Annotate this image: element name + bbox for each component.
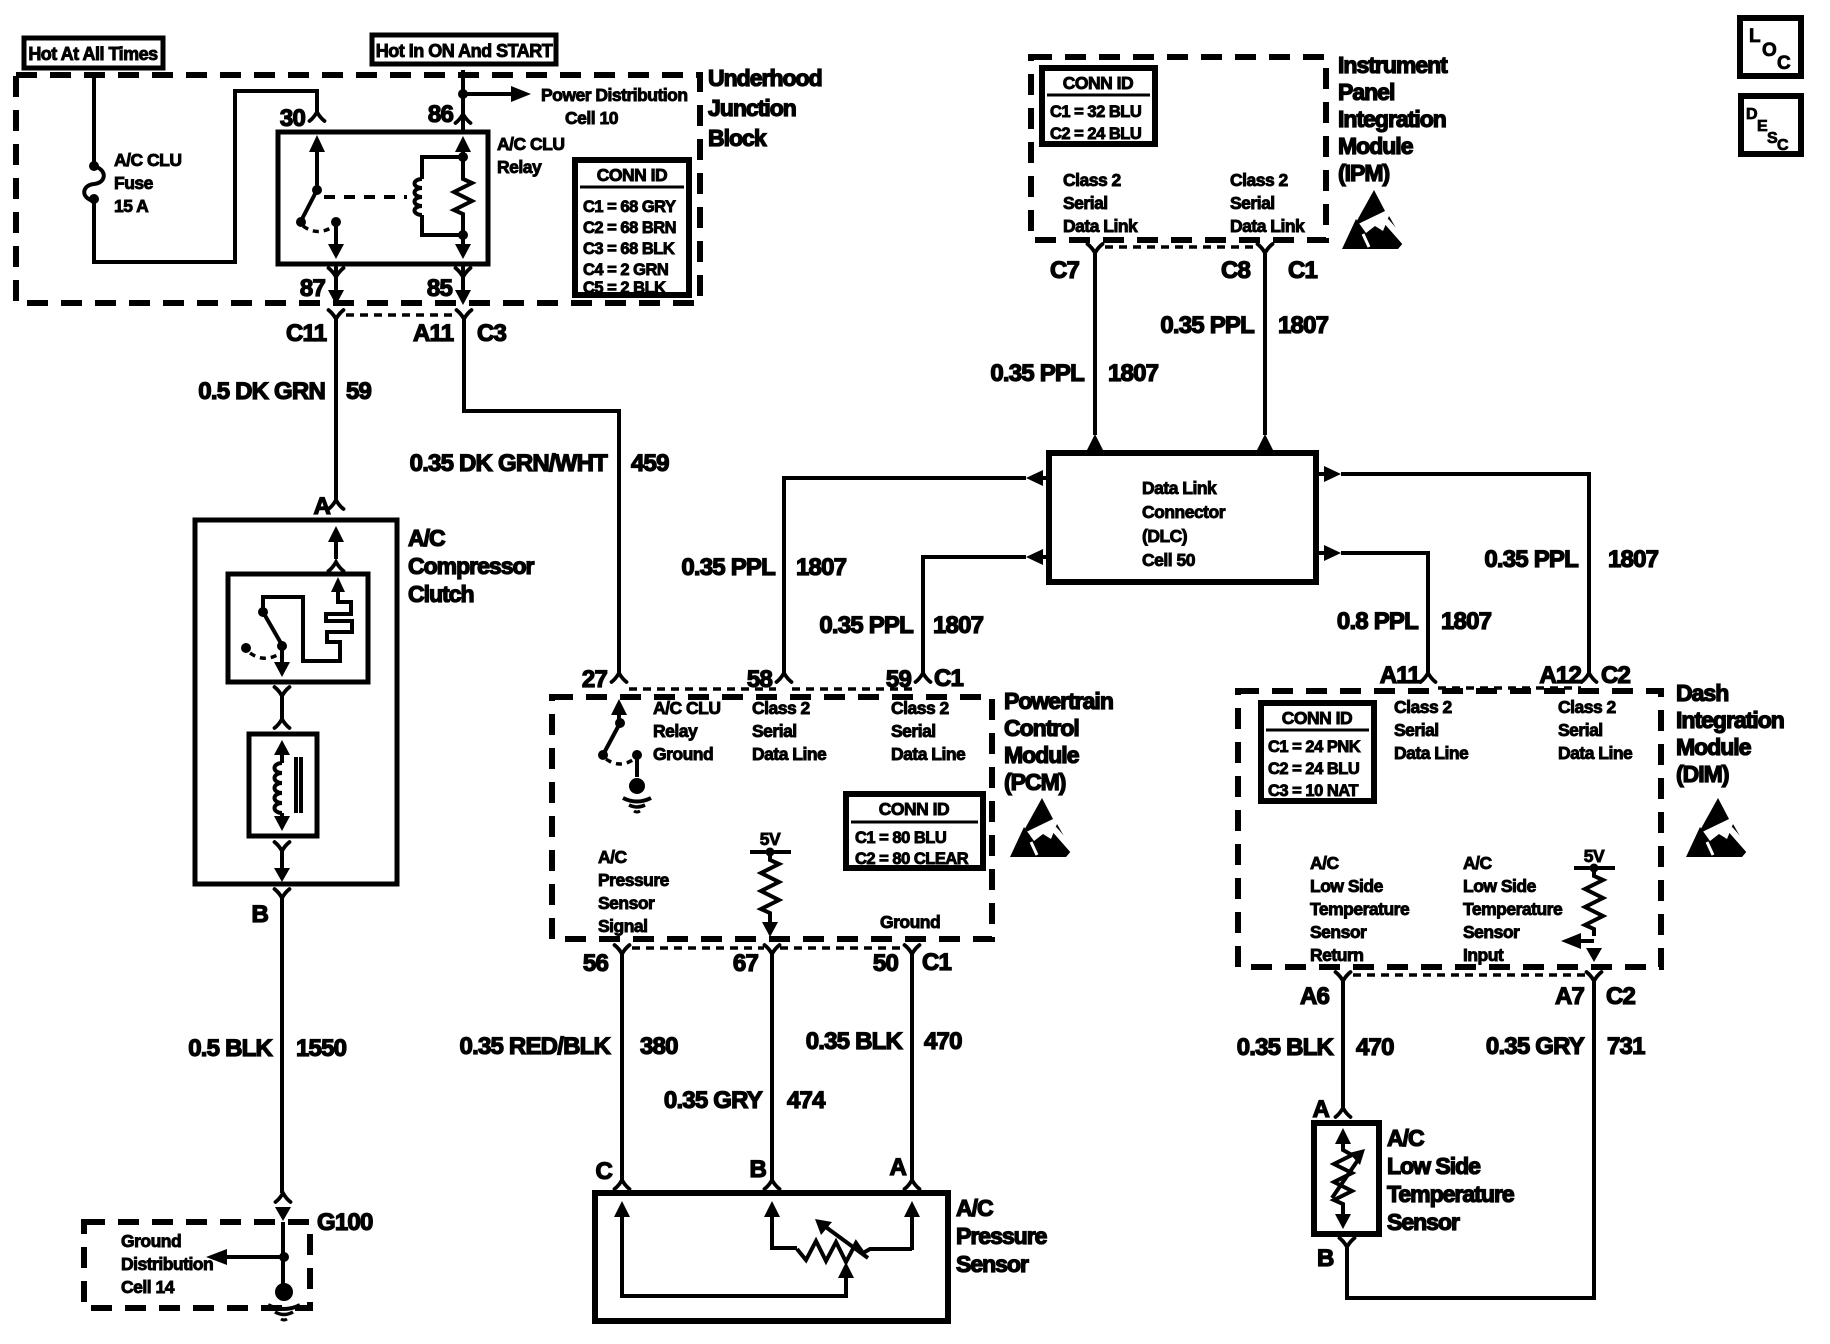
node A on temp sensor [1312, 1096, 1350, 1123]
wire DLC to DIM A11, 0.8 PPL 1807 [1337, 553, 1492, 673]
pin A6 [1300, 972, 1351, 1010]
svg-text:Data Line: Data Line [1558, 743, 1633, 763]
svg-text:Return: Return [1310, 945, 1363, 965]
svg-text:Instrument: Instrument [1338, 52, 1448, 78]
label A/C Low Side Temperature Sensor Input [1463, 853, 1563, 965]
svg-text:C1 = 24 PNK: C1 = 24 PNK [1268, 738, 1361, 756]
svg-text:470: 470 [924, 1028, 962, 1055]
svg-text:5V: 5V [1584, 846, 1605, 866]
svg-text:Module: Module [1338, 133, 1413, 159]
node B on clutch [251, 889, 289, 928]
svg-text:Panel: Panel [1338, 79, 1394, 105]
node C11 [286, 310, 344, 347]
svg-text:Integration: Integration [1338, 106, 1446, 132]
svg-text:5V: 5V [760, 829, 781, 849]
svg-text:Hot At All Times: Hot At All Times [28, 44, 158, 64]
svg-text:Relay: Relay [653, 721, 698, 741]
svg-text:Power Distribution: Power Distribution [541, 85, 688, 105]
svg-text:30: 30 [280, 105, 306, 132]
svg-text:Low Side: Low Side [1310, 876, 1384, 896]
svg-text:459: 459 [631, 450, 669, 477]
svg-text:27: 27 [582, 666, 608, 693]
wire A7 to temp sensor B, 0.35 GRY 731 [1347, 981, 1645, 1298]
svg-text:Cell 14: Cell 14 [121, 1277, 175, 1297]
svg-text:0.5 DK GRN: 0.5 DK GRN [198, 378, 325, 405]
svg-text:470: 470 [1356, 1034, 1394, 1061]
svg-text:Input: Input [1463, 945, 1504, 965]
svg-text:1807: 1807 [796, 554, 847, 581]
clutch coil box [249, 734, 317, 836]
svg-text:Module: Module [1004, 742, 1079, 768]
wire C3 to PCM pin 27, 0.35 DK GRN/WHT 459 [410, 319, 669, 673]
arrow DLC left lower [1026, 549, 1049, 565]
label A/C Pressure Sensor Signal [598, 847, 670, 936]
svg-text:Serial: Serial [1394, 720, 1439, 740]
connector dashed line IPM bottom [1105, 245, 1256, 249]
arrow DLC right upper [1316, 466, 1341, 482]
svg-text:A7: A7 [1555, 983, 1585, 1010]
svg-text:0.35 PPL: 0.35 PPL [1484, 546, 1578, 573]
svg-text:CONN ID: CONN ID [1063, 73, 1133, 93]
svg-text:0.5 BLK: 0.5 BLK [188, 1035, 273, 1062]
svg-text:Temperature: Temperature [1463, 899, 1563, 919]
label Underhood Junction Block [708, 65, 822, 151]
wire from Hot At All Times to fuse [92, 77, 96, 162]
relay coil resistor branch [454, 136, 472, 259]
label Hot At All Times [24, 38, 163, 68]
svg-text:Data Line: Data Line [752, 744, 827, 764]
svg-text:Class 2: Class 2 [1558, 697, 1617, 717]
ESD symbol PCM [1010, 798, 1076, 857]
svg-text:Pressure: Pressure [598, 870, 670, 890]
svg-text:C2 = 80 CLEAR: C2 = 80 CLEAR [855, 850, 969, 868]
connector dashed line DIM top [1438, 686, 1581, 690]
wire Hot In ON And START to relay pin 86 [461, 70, 465, 132]
arrow to Power Distribution Cell 10 [463, 85, 688, 128]
connector dashed line DIM bottom [1353, 973, 1586, 977]
svg-text:B: B [251, 901, 268, 928]
node B on temp sensor [1317, 1238, 1355, 1272]
arrow left at DIM resistor [1561, 933, 1602, 962]
label Class 2 Serial Data Line DIM A11 [1394, 697, 1469, 763]
svg-text:C2: C2 [1601, 662, 1631, 689]
svg-text:A/C: A/C [598, 847, 628, 867]
A/C Pressure Sensor box [595, 1193, 1047, 1321]
svg-text:87: 87 [300, 275, 326, 302]
node A on clutch [313, 493, 343, 520]
powertrain control module PCM dashed box [552, 697, 992, 939]
connector between switch and coil [275, 687, 290, 728]
svg-text:A11: A11 [1380, 662, 1421, 689]
location reference LOC box [1740, 18, 1801, 76]
pin 50 C1 [873, 945, 952, 977]
svg-text:Data Line: Data Line [1394, 743, 1469, 763]
label Powertrain Control Module (PCM) [1004, 688, 1113, 795]
svg-text:Class 2: Class 2 [1394, 697, 1453, 717]
svg-text:A: A [313, 493, 330, 520]
svg-text:1807: 1807 [933, 612, 984, 639]
svg-text:0.35 PPL: 0.35 PPL [990, 360, 1084, 387]
pin A12 C2 on DIM [1539, 662, 1630, 689]
svg-text:0.35 BLK: 0.35 BLK [806, 1028, 904, 1055]
pin 67 [733, 945, 780, 977]
svg-text:Hot In ON And START: Hot In ON And START [376, 41, 553, 61]
wire 56 to pressure sensor C, 0.35 RED/BLK 380 [460, 954, 679, 1180]
node C on pressure sensor [595, 1158, 629, 1189]
svg-text:A11: A11 [413, 320, 454, 347]
node junction dot on 86 wire [458, 89, 468, 99]
wire C11 to A/C compressor clutch pin A, 0.5 DK GRN 59 [198, 319, 371, 500]
svg-text:Data Line: Data Line [891, 744, 966, 764]
svg-text:Class 2: Class 2 [752, 698, 811, 718]
PCM internal relay ground switch [598, 699, 642, 777]
wire fuse to relay pin 30 [94, 91, 317, 262]
clutch pressure switch box [228, 574, 368, 682]
relay coil dashed actuator link [324, 195, 407, 199]
svg-text:1807: 1807 [1278, 312, 1329, 339]
instrument panel integration module IPM dashed box [1031, 57, 1326, 240]
svg-text:A/C CLU: A/C CLU [497, 134, 564, 154]
svg-text:C1: C1 [922, 949, 952, 976]
svg-text:Clutch: Clutch [408, 581, 474, 607]
svg-text:A: A [1312, 1096, 1329, 1123]
svg-text:C5 = 2 BLK: C5 = 2 BLK [583, 279, 666, 297]
svg-text:C: C [1777, 53, 1791, 74]
pin 27 [582, 666, 627, 693]
relay switch contact [296, 135, 344, 259]
description reference DESC box [1741, 96, 1801, 154]
clutch internal wire pin A to switch [328, 526, 344, 571]
svg-text:L: L [1749, 26, 1761, 47]
pin 30 [280, 105, 325, 132]
potentiometer element [797, 1219, 912, 1262]
svg-text:67: 67 [733, 950, 759, 977]
svg-text:Data Link: Data Link [1230, 216, 1305, 236]
svg-text:Ground: Ground [880, 912, 940, 932]
relay coil winding [415, 152, 468, 240]
svg-text:C1 = 32 BLU: C1 = 32 BLU [1050, 103, 1141, 121]
node A11 C3 [413, 310, 507, 347]
svg-text:0.35 PPL: 0.35 PPL [819, 612, 913, 639]
svg-text:15 A: 15 A [114, 196, 149, 216]
5V reference and resistor in PCM [750, 829, 791, 937]
svg-text:Control: Control [1004, 715, 1079, 741]
pin 86 [428, 101, 471, 128]
svg-text:Pressure: Pressure [956, 1223, 1047, 1249]
svg-text:1807: 1807 [1108, 360, 1159, 387]
wire PCM 58 to DLC, 0.35 PPL 1807 [681, 478, 1026, 673]
svg-text:Distribution: Distribution [121, 1254, 213, 1274]
clutch coil to pin B [274, 842, 290, 882]
svg-text:Data Link: Data Link [1142, 478, 1217, 498]
wire inside G100 [279, 1222, 289, 1288]
arrow into DLC top from C8 [1256, 434, 1274, 452]
wire A6 to temp sensor A, 0.35 BLK 470 [1237, 981, 1394, 1108]
svg-text:59: 59 [346, 378, 372, 405]
ground distribution dashed box G100 [84, 1209, 373, 1308]
label Hot In ON And START [372, 35, 556, 64]
arrow into DLC top from C7 [1086, 434, 1104, 452]
svg-text:0.35 RED/BLK: 0.35 RED/BLK [460, 1033, 612, 1060]
svg-text:Junction: Junction [708, 95, 796, 121]
pin C8 C1 [1221, 244, 1318, 284]
label Class 2 Serial Data Link pin C8 [1230, 170, 1305, 236]
node B on pressure sensor [749, 1156, 779, 1189]
svg-text:A/C CLU: A/C CLU [114, 150, 181, 170]
svg-text:Temperature: Temperature [1387, 1181, 1514, 1207]
svg-text:A/C: A/C [1387, 1125, 1424, 1151]
label Ground pin 50 [880, 912, 940, 932]
svg-text:1550: 1550 [296, 1035, 347, 1062]
fuse A/C CLU Fuse 15 A [84, 150, 181, 216]
svg-text:C4 = 2 GRN: C4 = 2 GRN [583, 261, 668, 279]
svg-text:0.35 PPL: 0.35 PPL [681, 554, 775, 581]
label Dash Integration Module (DIM) [1676, 680, 1784, 787]
svg-text:0.35 PPL: 0.35 PPL [1160, 312, 1254, 339]
svg-text:C2 = 24 BLU: C2 = 24 BLU [1268, 760, 1359, 778]
label Instrument Panel Integration Module (IPM) [1338, 52, 1448, 186]
arrow DLC left upper [1026, 470, 1049, 486]
ground G100 symbol [268, 1283, 300, 1320]
svg-text:Class 2: Class 2 [1063, 170, 1122, 190]
A/C Compressor Clutch box [195, 520, 535, 884]
ground symbol inside PCM [623, 778, 651, 812]
svg-text:C2: C2 [1606, 983, 1636, 1010]
svg-text:Integration: Integration [1676, 707, 1784, 733]
svg-text:C: C [595, 1158, 612, 1185]
svg-text:Temperature: Temperature [1310, 899, 1410, 919]
ESD symbol IPM [1342, 190, 1408, 249]
pressure sensor pin A internal wire [904, 1201, 920, 1250]
pin 58 [747, 666, 792, 693]
svg-text:A: A [889, 1154, 906, 1181]
pin 85 [427, 264, 471, 305]
svg-text:C3 = 10 NAT: C3 = 10 NAT [1268, 782, 1358, 800]
svg-text:Powertrain: Powertrain [1004, 688, 1113, 714]
label Class 2 Serial Data Line pin 58 [752, 698, 827, 764]
svg-text:C8: C8 [1221, 257, 1251, 284]
relay A/C CLU Relay box [278, 132, 564, 264]
wire 50 to pressure sensor A, 0.35 BLK 470 [806, 954, 962, 1180]
svg-text:C11: C11 [286, 320, 327, 347]
svg-text:1807: 1807 [1608, 546, 1659, 573]
A/C Low Side Temperature Sensor box [1314, 1123, 1514, 1235]
dash integration module DIM dashed box [1238, 691, 1661, 967]
svg-text:A/C: A/C [956, 1195, 993, 1221]
svg-text:0.35 GRY: 0.35 GRY [1486, 1033, 1585, 1060]
clutch switch actuator comb [263, 577, 352, 661]
pin 56 [583, 945, 630, 977]
wire C8 to DLC, 0.35 PPL 1807 [1160, 253, 1328, 435]
svg-text:0.8 PPL: 0.8 PPL [1337, 608, 1418, 635]
svg-text:Low Side: Low Side [1387, 1153, 1480, 1179]
svg-text:G100: G100 [317, 1209, 373, 1236]
svg-text:CONN ID: CONN ID [1282, 708, 1352, 728]
svg-text:Fuse: Fuse [114, 173, 154, 193]
svg-text:Class 2: Class 2 [891, 698, 950, 718]
svg-text:B: B [749, 1156, 766, 1183]
svg-text:474: 474 [787, 1087, 826, 1114]
label Class 2 Serial Data Link pin C7 [1063, 170, 1138, 236]
svg-text:C: C [1777, 137, 1789, 154]
svg-text:Sensor: Sensor [1463, 922, 1520, 942]
svg-text:Underhood: Underhood [708, 65, 822, 91]
svg-text:A6: A6 [1300, 983, 1330, 1010]
label A/C CLU Relay Ground [653, 698, 720, 764]
5V reference and resistor in DIM [1574, 846, 1615, 936]
svg-text:Ground: Ground [653, 744, 713, 764]
svg-text:1807: 1807 [1441, 608, 1492, 635]
svg-text:50: 50 [873, 950, 899, 977]
svg-text:Low Side: Low Side [1463, 876, 1537, 896]
svg-text:C3: C3 [477, 320, 507, 347]
node A on pressure sensor [889, 1154, 919, 1189]
svg-text:Compressor: Compressor [408, 553, 535, 579]
svg-text:85: 85 [427, 275, 453, 302]
svg-text:Data Link: Data Link [1063, 216, 1138, 236]
svg-text:Module: Module [1676, 734, 1751, 760]
svg-text:56: 56 [583, 950, 609, 977]
svg-text:Sensor: Sensor [1387, 1209, 1460, 1235]
svg-text:C1 = 68 GRY: C1 = 68 GRY [583, 198, 676, 216]
pressure sensor pin B internal wire [764, 1201, 797, 1248]
svg-text:B: B [1317, 1245, 1334, 1272]
svg-text:C2 = 24 BLU: C2 = 24 BLU [1050, 125, 1141, 143]
ESD symbol DIM [1686, 798, 1752, 857]
svg-text:Dash: Dash [1676, 680, 1728, 706]
conn id table PCM [846, 794, 983, 868]
clutch coil winding [274, 740, 301, 831]
svg-text:0.35 BLK: 0.35 BLK [1237, 1034, 1335, 1061]
svg-text:A/C: A/C [1310, 853, 1340, 873]
svg-text:731: 731 [1607, 1033, 1645, 1060]
svg-text:Serial: Serial [752, 721, 797, 741]
svg-text:0.35 DK GRN/WHT: 0.35 DK GRN/WHT [410, 450, 608, 477]
svg-text:Connector: Connector [1142, 502, 1226, 522]
svg-text:Serial: Serial [1230, 193, 1275, 213]
pin 59 C1 [886, 665, 964, 693]
connector into G100 [275, 1193, 291, 1221]
arrow DLC right lower [1316, 545, 1341, 561]
svg-text:A/C: A/C [408, 525, 445, 551]
svg-text:CONN ID: CONN ID [879, 799, 949, 819]
svg-text:Serial: Serial [1558, 720, 1603, 740]
svg-text:O: O [1762, 40, 1777, 61]
wire PCM 59 to DLC, 0.35 PPL 1807 [819, 557, 1026, 673]
svg-text:380: 380 [640, 1033, 678, 1060]
svg-text:Serial: Serial [1063, 193, 1108, 213]
svg-text:Relay: Relay [497, 157, 542, 177]
conn id table underhood [575, 160, 689, 297]
svg-text:(DIM): (DIM) [1676, 761, 1729, 787]
thermistor element [1332, 1128, 1365, 1229]
wire 67 to pressure sensor B, 0.35 GRY 474 [664, 954, 826, 1180]
pin 87 [300, 264, 344, 305]
pin C7 [1050, 244, 1103, 284]
svg-text:C2 = 68 BRN: C2 = 68 BRN [583, 219, 676, 237]
svg-text:86: 86 [428, 101, 454, 128]
svg-text:Sensor: Sensor [598, 893, 655, 913]
data link connector DLC box [1049, 453, 1316, 582]
svg-text:A/C: A/C [1463, 853, 1493, 873]
conn id table IPM [1042, 68, 1155, 144]
label Class 2 Serial Data Line DIM A12 [1558, 697, 1633, 763]
svg-text:A/C CLU: A/C CLU [653, 698, 720, 718]
svg-text:Cell 10: Cell 10 [565, 108, 619, 128]
label Class 2 Serial Data Line pin 59 [891, 698, 966, 764]
pin A11 on DIM [1380, 662, 1436, 689]
conn id table DIM [1261, 703, 1374, 801]
wire clutch B to G100, 0.5 BLK 1550 [188, 897, 346, 1193]
svg-text:(PCM): (PCM) [1004, 769, 1066, 795]
svg-text:C1 = 80 BLU: C1 = 80 BLU [855, 829, 946, 847]
svg-text:0.35 GRY: 0.35 GRY [664, 1087, 763, 1114]
svg-text:C1: C1 [934, 665, 964, 692]
svg-text:A12: A12 [1539, 662, 1581, 689]
svg-text:Class 2: Class 2 [1230, 170, 1289, 190]
svg-text:Sensor: Sensor [1310, 922, 1367, 942]
pin A7 C2 [1555, 972, 1636, 1010]
svg-text:(IPM): (IPM) [1338, 160, 1390, 186]
svg-text:C7: C7 [1050, 257, 1080, 284]
wire DLC to DIM A12, 0.35 PPL 1807 [1341, 474, 1659, 673]
connector dashed line PCM top [629, 687, 915, 691]
connector dashed line C11-A11 [346, 313, 455, 317]
arrow to ground distribution [206, 1249, 284, 1265]
clutch switch blade [241, 607, 290, 677]
svg-text:Sensor: Sensor [956, 1251, 1029, 1277]
svg-text:CONN ID: CONN ID [597, 165, 667, 185]
svg-text:Ground: Ground [121, 1231, 181, 1251]
connector dashed line PCM bottom [632, 946, 904, 950]
wire C7 to DLC, 0.35 PPL 1807 [990, 253, 1158, 435]
svg-text:Cell 50: Cell 50 [1142, 550, 1196, 570]
underhood junction block dashed box [16, 75, 700, 303]
svg-text:C3 = 68 BLK: C3 = 68 BLK [583, 240, 675, 258]
svg-text:Block: Block [708, 125, 767, 151]
svg-text:D: D [1746, 106, 1758, 123]
label A/C Low Side Temperature Sensor Return [1310, 853, 1410, 965]
svg-text:(DLC): (DLC) [1142, 526, 1187, 546]
pressure sensor pin C internal wire [614, 1201, 854, 1296]
svg-text:C1: C1 [1288, 257, 1318, 284]
svg-text:Signal: Signal [598, 916, 648, 936]
svg-text:Serial: Serial [891, 721, 936, 741]
